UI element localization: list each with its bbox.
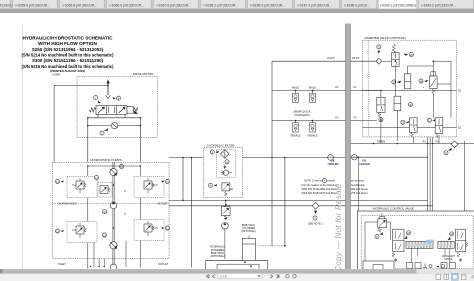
circled 21 arrow right to valve C (401, 120, 405, 124)
page separator band between the two PDF pages (345, 24, 350, 270)
male quick coupler 2 (310, 93, 316, 102)
pilot arrow lower right (134, 112, 137, 114)
note 1 block (right page copy, clipped by separator) (351, 180, 368, 196)
wire: drive motor down to pumps (88, 133, 141, 162)
wire: main pressure riser (272, 61, 285, 246)
tab 3 (60, 0, 105, 9)
svg-text:(OPTIONAL): (OPTIONAL) (241, 229, 256, 233)
tab bar background (0, 0, 474, 9)
wire: spool bottom connections (412, 248, 450, 262)
svg-text:V-2346: V-2346 (52, 73, 60, 76)
bob-tach relief valve (222, 207, 231, 216)
pump circle bottom (drive pump 2) (110, 242, 117, 249)
oil cooler circle (right page) (352, 154, 358, 160)
tab 7 (248, 0, 293, 9)
svg-text:INLET: INLET (59, 262, 67, 266)
tab 4 (107, 0, 152, 9)
wire: drop to cylinder area dashed (257, 245, 285, 247)
svg-text:v-6186-2.pdf (SECUR...: v-6186-2.pdf (SECUR... (250, 3, 285, 7)
circled 23 (406, 231, 410, 235)
bob-tach valve box (bottom, cut) (206, 260, 268, 271)
svg-text:HYDRAULIC/HYDROSTATIC SCHEMATI: HYDRAULIC/HYDROSTATIC SCHEMATIC (23, 35, 114, 40)
tab 9 (342, 0, 377, 9)
circled item 11 (102, 210, 106, 214)
wire: right page frame verticals (358, 141, 464, 211)
wire: main return line to cooler (169, 157, 345, 159)
svg-text:OUTLET: OUTLET (158, 262, 169, 266)
junction dots pumps (87, 165, 141, 229)
relief cluster bottom-left (55, 222, 97, 243)
svg-text:DIVERTER VALVE (OPTIONAL): DIVERTER VALVE (OPTIONAL) (365, 36, 407, 40)
svg-text:as removed: as removed (351, 180, 365, 183)
wire: valve lower loop (98, 114, 125, 118)
wire: diverter upper web (395, 61, 451, 118)
diverter pilot spring top (392, 44, 395, 53)
wire: drain line below diverter (351, 143, 474, 145)
svg-text:v-6187-2.pdf (SECUR...: v-6187-2.pdf (SECUR... (297, 3, 332, 7)
svg-text:PILOT: PILOT (328, 56, 336, 60)
small box bottom-left of control valve (363, 261, 394, 270)
wire: pilot line (272, 60, 345, 62)
svg-text:FEMALE: FEMALE (290, 135, 300, 138)
male quick coupler 1 (293, 93, 299, 102)
scrollbar track (0, 269, 474, 274)
wire: P1/P2 triple risers (428, 137, 433, 233)
svg-text:S300 S/N 521511275 And Above: S300 S/N 521511275 And Above (301, 192, 338, 195)
second spool block (aux) (438, 241, 454, 248)
diverter lower-left valve (377, 97, 385, 112)
circled 17 arrow right (392, 80, 396, 84)
svg-text:v-6365-6.pdf (SECUR...: v-6365-6.pdf (SECUR... (62, 3, 97, 7)
svg-text:HYDRAULIC FILTER: HYDRAULIC FILTER (207, 143, 234, 147)
svg-text:SPOOL: SPOOL (444, 257, 453, 261)
svg-text:WITH HIGH FLOW OPTION: WITH HIGH FLOW OPTION (38, 41, 97, 46)
svg-text:ler Copy — Not for Resale: ler Copy — Not for Resale (334, 183, 343, 281)
circled 24 (450, 232, 454, 236)
bottom small squares (work ports, cut) (407, 263, 413, 269)
filter relief valve (222, 183, 230, 191)
pump circle top (drive pump 1) (110, 168, 117, 175)
svg-text:(REAR QUICK: (REAR QUICK (293, 110, 310, 114)
svg-text:S250 (S/N 521311994 - 52131205: S250 (S/N 521311994 - 521312052) (32, 47, 104, 52)
active tab (378, 0, 416, 9)
bob-tach cylinder label (241, 223, 256, 233)
relief cluster top-right (134, 177, 170, 198)
wire: charge crossline dashed (52, 203, 169, 205)
svg-text:S250 S/N 521311284 And Above: S250 S/N 521311284 And Above (301, 188, 338, 191)
relief valve small (center top-left) (94, 175, 112, 197)
svg-text:284 And Above: 284 And Above (351, 188, 368, 191)
svg-text:DRAIN: DRAIN (377, 140, 385, 144)
circled item 2 (210, 150, 214, 154)
circled 22 arrow right to valve D (427, 118, 431, 122)
svg-text:v-6185-2.pdf (SECUR...: v-6185-2.pdf (SECUR... (203, 3, 238, 7)
rotate icons (286, 275, 289, 278)
svg-text:40A: 40A (229, 188, 234, 191)
diverter center element (394, 96, 401, 110)
svg-text:v-6188-2.pdf (S...: v-6188-2.pdf (S... (344, 3, 370, 7)
valve arrows (98, 107, 105, 113)
circled item 10 (119, 164, 123, 168)
hydraulic filter enclosure (dashed) (204, 147, 243, 197)
svg-text:PILOT: PILOT (352, 56, 360, 60)
control valve outer box (357, 211, 474, 271)
svg-text:DRIVE MOTOR: DRIVE MOTOR (133, 72, 153, 76)
diverter solenoid valve (vertical 2-pos) (392, 53, 400, 67)
circled 7 in note (322, 179, 326, 183)
wire: inner pump connections (88, 166, 141, 269)
wire: vertical risers right of pumps (183, 158, 192, 268)
diverter valve C (410, 118, 418, 133)
wire: dashed pilot drop inside diverter (368, 40, 370, 137)
status bar (0, 274, 474, 281)
tab 5 (154, 0, 199, 9)
circled 20 (408, 103, 412, 107)
lift spool (left vertical valve) (393, 229, 404, 251)
circled 7 below (313, 216, 317, 220)
breakaway diamond + circled 5 (451, 141, 458, 148)
circled item 4 (208, 183, 212, 187)
wire: trunk lines right page (351, 200, 433, 205)
solenoid box + spring right end (127, 107, 134, 114)
hydraulic powered bob-tach label (210, 245, 225, 259)
right vertical valve (aux detent) (456, 229, 466, 251)
bob-tach cylinder (243, 239, 256, 263)
center spool block (tilt) (406, 241, 433, 248)
circled item 1 (flushing valve) (100, 131, 104, 135)
female quick coupler 1 (293, 123, 299, 132)
case drain filter (diamond on line) (312, 202, 319, 209)
spring left end of valve (89, 108, 96, 112)
bob-tach pump circle (222, 223, 229, 230)
relief cluster top-left (55, 177, 97, 198)
diverter valve D (435, 118, 443, 134)
wire: F1 line (272, 89, 345, 91)
diverter valve enclosure (dashed) (363, 40, 457, 137)
right view-mode icons (436, 273, 474, 280)
svg-text:HYDROSTATIC PUMPS: HYDROSTATIC PUMPS (90, 158, 121, 162)
circled item 8 (drive motor) (117, 96, 121, 100)
bypass check (circle + seat) (223, 170, 228, 175)
oil cooler circle (left page) (328, 155, 334, 161)
svg-text:he following:: he following: (351, 184, 365, 187)
circled 6 (375, 235, 379, 239)
directional control valve (drive motor) body (96, 106, 127, 115)
junction dots drive motor loop (87, 85, 141, 127)
wire: F2 line right page (351, 120, 363, 122)
svg-text:FEMALE: FEMALE (307, 135, 317, 138)
search highlight (426, 240, 434, 244)
wire: relief feed (365, 213, 390, 266)
main relief valve (control valve) (378, 219, 387, 228)
hydrostatic pumps enclosure (dashed) (52, 162, 169, 258)
svg-text:COOLER: COOLER (328, 163, 339, 166)
tab 6 (201, 0, 246, 9)
tab partial left (0, 0, 10, 9)
circled 16 arrow left (409, 52, 413, 56)
wire: supply line into valve top (107, 83, 109, 95)
svg-text:v-6343-2.pdf (SECUR...: v-6343-2.pdf (SECUR... (421, 3, 456, 7)
svg-text:×: × (410, 4, 412, 8)
port symbols right bottom (423, 264, 427, 268)
check valve at valve inlet (106, 95, 111, 98)
svg-text:(PRINTED AUGUST 2003): (PRINTED AUGUST 2003) (50, 69, 85, 73)
page navigation controls (207, 275, 215, 279)
wire: inner verticals to bottom ports (94, 241, 126, 268)
arrow up (314, 211, 317, 214)
charge pump circle (center) (110, 202, 117, 209)
wire: F2 line (272, 120, 345, 122)
title block (21, 35, 114, 76)
scrollbar left cap (0, 269, 2, 274)
svg-text:COUPLERS): COUPLERS) (294, 113, 309, 117)
svg-text:1 / 2: 1 / 2 (220, 275, 227, 279)
svg-text:275 And Above: 275 And Above (351, 192, 368, 195)
filter inner sub-box (dashed) (217, 150, 236, 178)
arrow down to cooler bypass (224, 165, 226, 169)
circled item 3 (225, 160, 229, 164)
tab last (418, 0, 473, 9)
svg-text:COOLER: COOLER (359, 163, 370, 166)
wire: charge line from left frame to drive motor top (54, 85, 108, 162)
female quick coupler 2 (310, 123, 316, 132)
relief valve col 2 (431, 72, 436, 76)
accumulator (404, 74, 410, 89)
drive motor enclosure (dashed) (77, 77, 158, 138)
wire: loop through flushing orifice (88, 125, 141, 127)
scrollbar thumb (0, 269, 417, 273)
svg-text:P1: P1 (423, 140, 427, 144)
svg-text:MALE: MALE (309, 87, 316, 90)
circled 9 with arrow (377, 45, 381, 49)
wire: cooler line right page (351, 156, 428, 158)
wire: outlet lines to control valve (169, 200, 345, 205)
wire: diverter bottom connections (363, 90, 440, 143)
svg-text:HYDRAULIC CONTROL VALVE: HYDRAULIC CONTROL VALVE (373, 207, 414, 211)
pump circle at bottom edge (gerotor, cut) (110, 264, 117, 271)
svg-text:v-6355-6.pdf (SECUR...: v-6355-6.pdf (SECUR... (15, 3, 50, 7)
tab 2 (13, 0, 58, 9)
filter element (diamond) (221, 150, 230, 159)
wire: F1 line right page (351, 89, 457, 91)
left page faint edge (21, 24, 23, 269)
svg-text:(S/N 5214 No machined built to: (S/N 5214 No machined built to this sche… (21, 53, 114, 58)
relief cluster bottom-right (134, 220, 170, 241)
tab 8 (295, 0, 340, 9)
gray band under tabs (0, 9, 474, 13)
svg-text:P2: P2 (435, 140, 439, 144)
svg-text:S300 (S/N 521511266 - 52151129: S300 (S/N 521511266 - 521511290) (32, 58, 104, 63)
svg-text:SEE NOTE 1: SEE NOTE 1 (308, 222, 323, 225)
svg-text:v-6366-6.pdf (SECUR...: v-6366-6.pdf (SECUR... (109, 3, 144, 7)
wire: bob-tach pump lines (224, 200, 227, 259)
svg-text:MALE: MALE (292, 87, 299, 90)
svg-text:from the loaders at the follow: from the loaders at the following: (301, 184, 337, 187)
wire: center pump shaft line (113, 162, 114, 269)
flushing valve circle (111, 122, 117, 128)
svg-text:NOTE 1: Item was removed: NOTE 1: Item was removed (304, 180, 335, 183)
control valve inner dashed box (361, 215, 473, 268)
circled 18 arrow right (419, 79, 423, 83)
wire: pilot to spool (382, 52, 395, 61)
circled item 7 (drive motor) (94, 96, 98, 100)
wire: pilot line into diverter (351, 60, 376, 62)
svg-text:(OPTIONAL): (OPTIONAL) (210, 254, 225, 258)
circled 19 below (379, 117, 383, 121)
svg-text:v-6367-6.pdf (SECUR...: v-6367-6.pdf (SECUR... (156, 3, 191, 7)
circled item 12 (102, 233, 106, 237)
pilot filter (diamond) (376, 58, 382, 64)
